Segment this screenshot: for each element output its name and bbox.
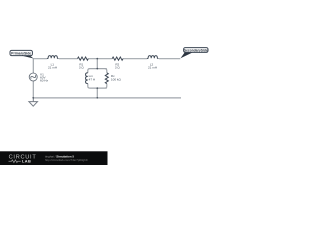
resistor Rc xyxy=(105,73,108,84)
wire shunt bottom edge xyxy=(88,84,107,89)
inductor L1 xyxy=(47,56,58,59)
svg-text:21 mH: 21 mH xyxy=(48,66,57,70)
wire shunt to bottom rail xyxy=(96,88,98,98)
wire junction drop xyxy=(96,59,98,69)
resistor R1 xyxy=(78,57,89,60)
node ground junction xyxy=(32,97,34,99)
label R2 value xyxy=(115,62,121,69)
svg-text:3 Ω: 3 Ω xyxy=(79,66,85,70)
wire R1 to R2 xyxy=(88,58,112,60)
label PrimarySide xyxy=(10,50,34,58)
wire V1 bottom xyxy=(32,81,34,98)
inductor Lm xyxy=(86,73,88,84)
wire R2 to L2 xyxy=(123,58,147,60)
wire L1 to R1 xyxy=(59,58,78,60)
wire shunt top edge xyxy=(88,69,107,73)
label L2 value xyxy=(148,62,157,69)
label Lm value xyxy=(89,74,96,81)
svg-text:100 kΩ: 100 kΩ xyxy=(111,77,122,81)
label R1 value xyxy=(79,62,85,69)
wire bottom rail xyxy=(33,97,181,99)
wire top rail left xyxy=(33,59,47,73)
logo CircuitLab xyxy=(9,154,37,163)
node shunt bottom xyxy=(96,87,98,89)
label SecondarySide xyxy=(181,48,209,59)
node junction top xyxy=(96,58,98,60)
svg-text:21 mH: 21 mH xyxy=(148,66,157,70)
label L1 value xyxy=(48,62,57,69)
svg-text:LAB: LAB xyxy=(22,159,31,164)
label Rc value xyxy=(111,74,122,81)
footer bar xyxy=(0,151,108,166)
node bottom rail xyxy=(96,97,98,99)
svg-text:3 Ω: 3 Ω xyxy=(115,66,121,70)
svg-text:47 H: 47 H xyxy=(89,77,96,81)
node shunt top xyxy=(96,68,98,70)
svg-text:PrimarySide: PrimarySide xyxy=(11,51,31,55)
voltage source V1 xyxy=(29,73,37,81)
label V1 value xyxy=(40,73,49,83)
svg-text:60 Hz: 60 Hz xyxy=(40,78,49,82)
wire L2 to secondary terminal xyxy=(159,58,180,60)
resistor R2 xyxy=(112,57,123,60)
svg-text:SecondarySide: SecondarySide xyxy=(184,48,208,52)
ground xyxy=(29,98,38,106)
inductor L2 xyxy=(147,56,159,59)
svg-text:http://circuitlab.com/74sr7p63: http://circuitlab.com/74sr7p63gh9 xyxy=(45,158,88,162)
